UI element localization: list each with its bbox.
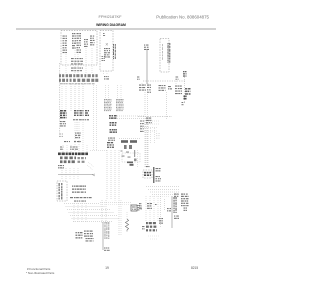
stack box 1 [109, 115, 117, 119]
evap fan dashed outline [143, 170, 152, 178]
br vert dash 1 [160, 196, 162, 228]
wire below boxes [76, 122, 78, 132]
board stub a [103, 71, 105, 75]
label under component boxes [73, 119, 89, 120]
label r2 [147, 85, 151, 93]
wire down a [74, 122, 76, 151]
control board dashed box [100, 31, 113, 72]
br wire x=154 [153, 196, 155, 221]
wire to heater symbol [126, 212, 128, 219]
label r3 [159, 85, 166, 91]
long vert run x=145 [144, 92, 146, 168]
center small marks a [60, 147, 64, 150]
wire bl d [73, 168, 75, 180]
center small marks b [70, 147, 78, 150]
vert run x=111 [110, 150, 112, 200]
wire v3 [78, 84, 80, 111]
connector band row 2 [59, 79, 98, 82]
dispenser labels col 4 [84, 39, 88, 47]
bl fan dash 1 [64, 203, 100, 205]
defrost label [75, 133, 81, 139]
svg-text:WIRING DIAGRAM: WIRING DIAGRAM [96, 23, 126, 27]
bl vert dash 4 [120, 200, 122, 235]
board stub b [106, 71, 108, 75]
wire bl e [77, 168, 79, 180]
vert dash x=150.5 [150, 128, 152, 144]
dash below P b [150, 238, 158, 240]
box O text [132, 207, 136, 210]
cluster N2 [84, 231, 93, 237]
wire right a [93, 85, 95, 151]
band bit right [104, 76, 109, 80]
stub wire d [85, 48, 87, 74]
stub r3 [175, 81, 177, 85]
br mark a [139, 203, 142, 209]
board top tiny mark [103, 33, 105, 36]
marks above evap fan [146, 166, 150, 167]
connector band row 1 [59, 74, 98, 77]
br wire x=146 [145, 196, 147, 221]
band stub b [66, 145, 68, 152]
svg-text:# Functional Parts: # Functional Parts [27, 267, 51, 271]
band stub c [70, 145, 72, 152]
center dark block [107, 142, 114, 148]
svg-text:8215: 8215 [191, 266, 198, 270]
vert dash x=154.5 [154, 128, 156, 144]
dash wire h1 [117, 115, 144, 117]
wire down c [82, 122, 84, 151]
dash row 2 [140, 123, 160, 125]
short vert x=115 [114, 196, 116, 204]
bl fan dash 2 [66, 206, 106, 208]
wire bl b [65, 168, 67, 180]
heater cluster rows [146, 222, 157, 231]
plug vertical dashed [184, 77, 186, 102]
control board small text [102, 56, 106, 61]
vert run x=146 [145, 118, 147, 168]
power cord labels left [175, 86, 182, 95]
dispenser labels col 2 [72, 33, 76, 49]
wire to relay b [108, 85, 110, 99]
wire to relay a [105, 85, 107, 99]
bl vert dash 3 [118, 200, 120, 235]
fan label [174, 194, 179, 197]
bl fan cross x=82 [81, 203, 83, 222]
bl fan dash 4 [69, 212, 115, 214]
bl fan cross x=78 [77, 203, 79, 222]
x mark in board [106, 43, 108, 45]
bl fan cross x=86 [85, 203, 87, 222]
wide label row [70, 197, 92, 198]
stub r2 [147, 83, 149, 86]
left small marks y133 [59, 134, 63, 137]
center wide label dark chunks [121, 140, 137, 143]
dash row 3 [140, 127, 158, 129]
fan dash extra [150, 196, 170, 198]
fan dash 4 [152, 194, 180, 196]
svg-text:19: 19 [105, 266, 109, 270]
heater zigzag symbol [125, 219, 128, 232]
two small components [124, 145, 132, 149]
plug symbol [183, 71, 187, 77]
stub wire e [91, 48, 93, 74]
band bit far right [137, 77, 140, 80]
bl vertical line [102, 222, 104, 250]
plug blades dark blob [184, 96, 188, 100]
wire arrow end [92, 174, 95, 176]
freezer section dashed box [160, 39, 169, 73]
stub wire c [77, 54, 79, 74]
faint dash to band [90, 150, 107, 152]
br label b [174, 216, 179, 219]
label r1 [139, 85, 146, 91]
water valve dashed box [57, 181, 67, 201]
vert dash x=166.5 [166, 92, 168, 120]
br wire x=150 [149, 196, 151, 221]
inner column freezer box [161, 44, 164, 60]
header rule [16, 28, 216, 30]
compressor label [108, 138, 115, 141]
right cluster tail [184, 208, 188, 211]
stub wire b [74, 50, 76, 74]
wire v4 [82, 84, 84, 111]
vert run x=119 [118, 150, 120, 200]
center label b [74, 141, 81, 142]
component row right [78, 157, 87, 163]
fuse box O [131, 205, 137, 211]
bl vert dash 1 [101, 200, 103, 224]
bl fan dash 6 [72, 218, 120, 220]
wire to cap b [120, 85, 122, 99]
svg-text:* Non-Illustrated Parts: * Non-Illustrated Parts [26, 271, 55, 275]
left boundary dashed wire [59, 63, 61, 133]
wire v2 [74, 84, 76, 111]
dash wire h2 [117, 118, 144, 120]
dense dark band [58, 153, 88, 156]
relay block fine texture [104, 99, 112, 111]
vert dash x=137.5 [137, 150, 139, 168]
wire harness label [144, 45, 149, 51]
br vertical line [171, 196, 173, 228]
dash row 1 [140, 120, 160, 122]
component box 3 [85, 110, 89, 116]
wire to cap a [117, 85, 119, 99]
small connector label [176, 77, 179, 80]
bl fan dash 7 [73, 221, 112, 223]
dash to box O 2 [100, 203, 131, 205]
control board text block [104, 48, 110, 58]
wire v0a [61, 86, 63, 110]
right cluster rows [181, 194, 189, 207]
bl rotated text [105, 222, 110, 239]
label K right bottom [156, 176, 162, 182]
box O marks [138, 205, 141, 210]
dash below P a [148, 235, 160, 237]
component box 2 [80, 110, 84, 116]
band-to-right dashed run [143, 80, 186, 82]
stub wire a [65, 54, 67, 74]
br mark c [155, 204, 157, 205]
stack box 2 [110, 122, 117, 126]
stub r1 [141, 83, 143, 86]
wire v1 [70, 84, 72, 112]
strong dashed h y=116.5 [138, 116, 172, 118]
defrost dashed box [122, 153, 140, 162]
power cord terminals [185, 88, 191, 95]
main vertical wire [146, 49, 148, 84]
terminal block lower rows [60, 121, 66, 127]
bl fan cross x=74 [73, 203, 75, 222]
label r4 [168, 86, 172, 89]
svg-text:FPHI2187KF: FPHI2187KF [98, 14, 122, 19]
vertical label right of board [113, 44, 116, 59]
dash to box O [100, 202, 131, 204]
dark vertical bar [153, 167, 155, 183]
label K right top [156, 168, 161, 171]
extra label row [74, 201, 86, 202]
evap fan dark text [144, 172, 151, 176]
defrost box contents [121, 150, 137, 166]
bl vert dash 2 [105, 200, 107, 224]
stack box 3 [110, 129, 118, 133]
dispenser lower label [71, 58, 83, 65]
terminal block dark rows [60, 110, 67, 118]
diagonal dashes [87, 162, 94, 170]
left column bits [140, 121, 144, 132]
long vert run x=147.5 [147, 92, 149, 168]
center label a [64, 141, 70, 142]
dispenser assembly dashed box [61, 31, 97, 66]
heater cluster marks [142, 226, 145, 229]
connector band row 3 tiny [60, 83, 95, 84]
br marks c [159, 218, 163, 224]
text block above fan [72, 186, 86, 193]
wire right b [96, 85, 98, 151]
relay cluster marks [146, 118, 152, 124]
wire v0b [65, 86, 67, 110]
fan dash 2 [148, 189, 180, 191]
capacitor block fine texture [116, 99, 124, 111]
svg-text:Publication No. 808604875: Publication No. 808604875 [156, 15, 209, 20]
dispenser wire labels col 1 [63, 36, 68, 54]
bl fan dash 5 [70, 215, 117, 217]
vert run x=107 [106, 150, 108, 200]
label under band [58, 165, 64, 168]
dash row 4 [140, 130, 158, 132]
cluster N1 [76, 232, 83, 239]
wire bl a [61, 168, 63, 180]
component box 1 [74, 110, 79, 116]
dispenser labels col 5 [90, 36, 95, 46]
band stub a [62, 145, 64, 152]
vertical label freezer box [168, 43, 171, 63]
br wire x=158 [157, 196, 159, 221]
cluster N3 [86, 238, 94, 242]
bl fan dash 3 [67, 209, 110, 211]
vert run x=148 [147, 122, 149, 168]
fan dash 1 [146, 186, 180, 188]
br small box [167, 208, 171, 211]
dispenser labels col 3 [77, 33, 82, 53]
dispenser bottom label [71, 68, 83, 72]
br rotated text [174, 197, 177, 213]
wire down b [78, 122, 80, 151]
horizontal wire [58, 174, 92, 176]
vert run x=115 [114, 150, 116, 200]
wire bl c [69, 168, 71, 180]
fan dash 3 [150, 191, 180, 193]
band stub d [86, 145, 88, 152]
dash wire h3 [119, 138, 141, 140]
br cluster b [147, 203, 152, 209]
rotated labels [59, 183, 63, 200]
sparse dots right [156, 133, 160, 139]
mark below plug [182, 102, 185, 105]
br vert dash 2 [164, 199, 166, 210]
text under bl line [104, 248, 110, 251]
dark component row left [60, 157, 76, 164]
